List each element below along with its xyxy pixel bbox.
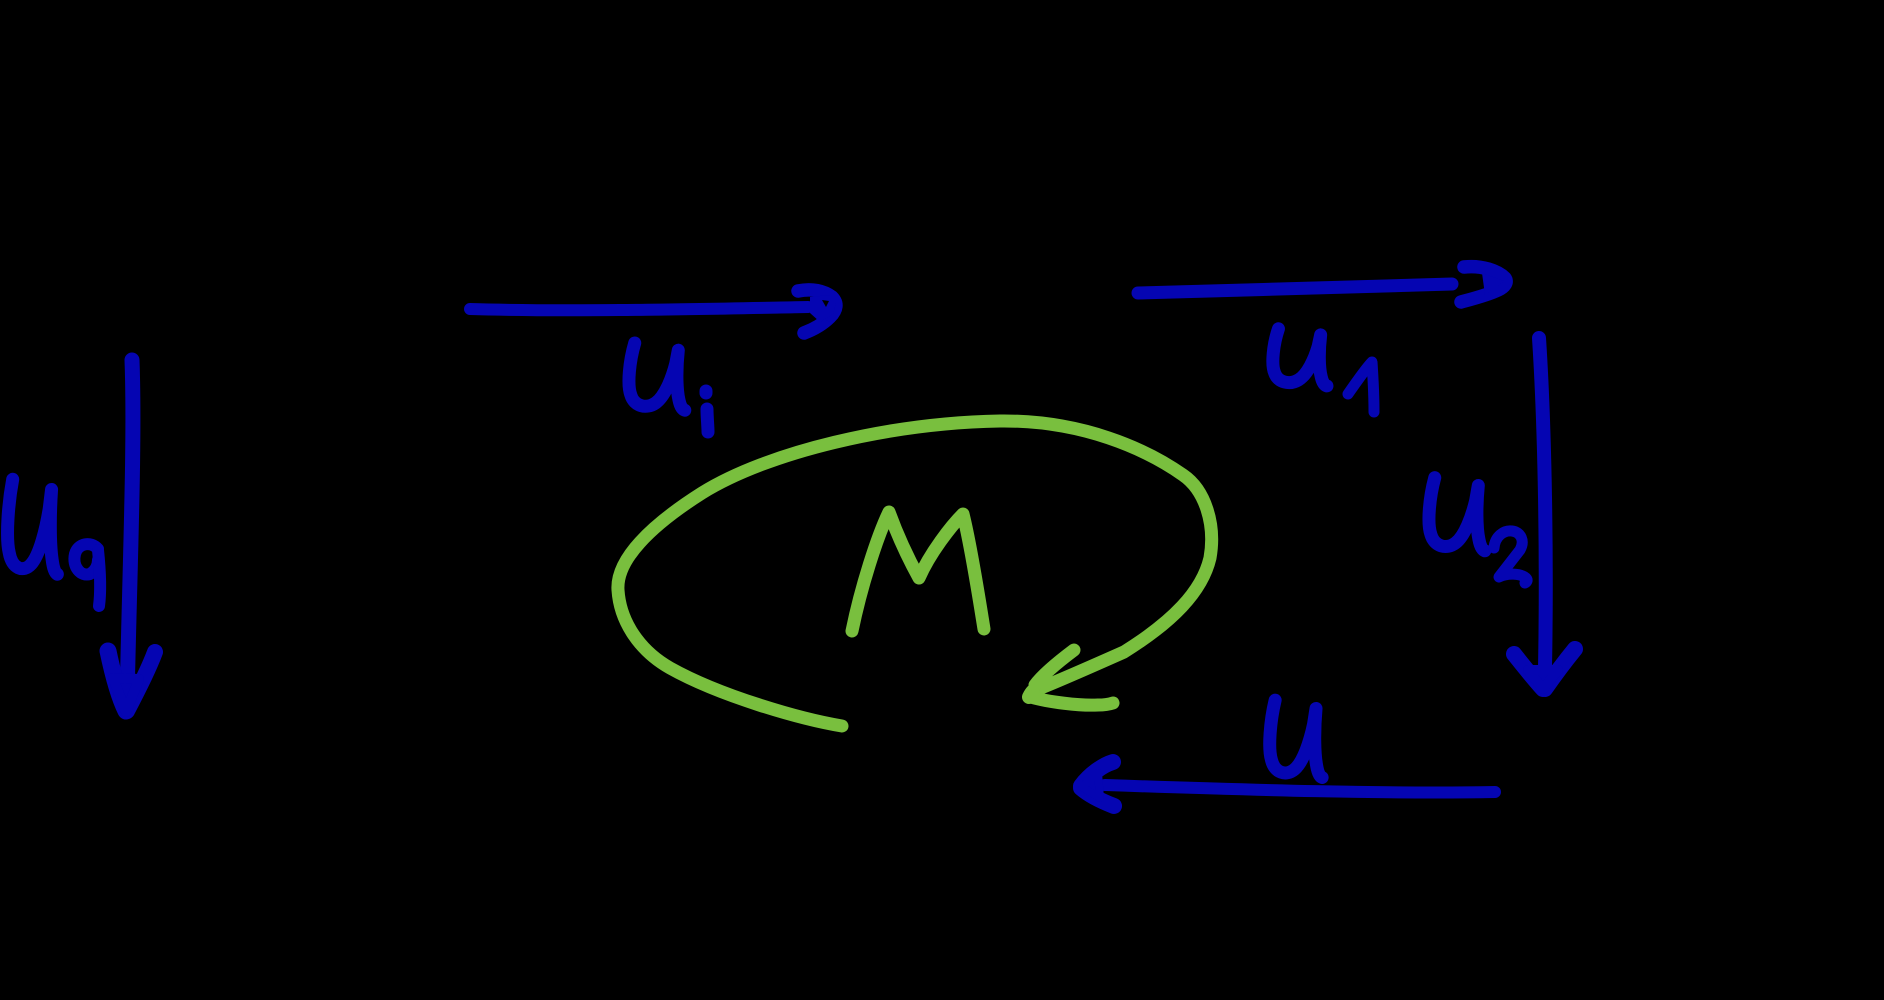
voltage arrow Ui head pocket fill	[810, 295, 836, 322]
voltage arrow Uq head right barb	[127, 652, 155, 711]
label Ui subscript i stem	[707, 409, 708, 432]
voltage arrow U head lower barb	[1081, 788, 1114, 806]
label U1 letter U	[1273, 329, 1327, 386]
voltage arrow U2 head left barb	[1514, 654, 1543, 689]
label U letter U	[1270, 700, 1322, 777]
voltage arrow Ui head inner notch	[822, 300, 829, 307]
mesh label M	[852, 512, 984, 631]
label Uq subscript q bowl	[74, 544, 98, 574]
label Uq subscript q stem	[98, 550, 100, 606]
voltage arrow Uq head left barb	[108, 651, 126, 711]
voltage arrow Uq head fill	[113, 678, 139, 712]
mesh loop arrowhead corner tip	[1029, 691, 1033, 697]
voltage arrow U head upper barb	[1081, 762, 1113, 786]
label Ui letter U	[629, 343, 685, 410]
label U2 letter U	[1429, 478, 1485, 551]
voltage arrow U1 head chevron	[1461, 267, 1506, 302]
voltage arrow U1 head fill	[1482, 273, 1504, 295]
voltage arrow Ui head vertex blob	[828, 298, 833, 313]
voltage arrow U head fill	[1082, 773, 1100, 798]
label U1 subscript 1	[1348, 362, 1374, 412]
mesh loop M (green open ellipse)	[618, 421, 1212, 726]
voltage arrow U1 shaft	[1138, 284, 1452, 293]
voltage arrow U2 head fill	[1528, 670, 1558, 689]
voltage arrow U shaft	[1105, 785, 1495, 793]
label U2 subscript 2	[1494, 531, 1527, 583]
mesh loop arrowhead lower barb	[1031, 697, 1113, 705]
voltage arrow Ui shaft	[470, 307, 808, 310]
mesh loop arrowhead upper barb	[1035, 650, 1074, 685]
label Uq letter U	[8, 479, 58, 574]
voltage arrow Ui head chevron	[798, 290, 836, 333]
voltage arrow Uq shaft	[127, 360, 133, 700]
voltage arrow U2 shaft	[1539, 338, 1546, 668]
label Ui subscript i dot	[700, 391, 713, 393]
voltage arrow U2 head right barb	[1545, 649, 1575, 689]
